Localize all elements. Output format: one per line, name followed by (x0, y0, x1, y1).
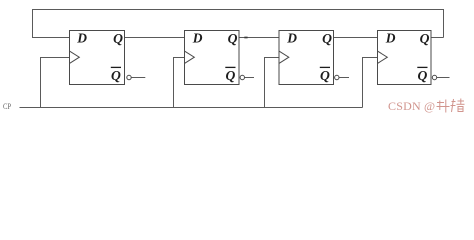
wire: clock riser FF1 (41, 58, 70, 108)
wire: Q-bar stub FF3 (339, 77, 349, 79)
inverter bubble on Q-bar FF1 (127, 75, 131, 79)
clock chevron FF4 (378, 51, 388, 63)
overbar of Q-bar FF3 (320, 66, 330, 68)
svg-text:CSDN @: CSDN @ (388, 99, 435, 113)
svg-text:D: D (286, 31, 297, 46)
overbar of Q-bar FF1 (111, 66, 121, 68)
flip-flop FF1 body (70, 31, 125, 85)
svg-text:Q: Q (320, 68, 330, 83)
svg-text:Q: Q (420, 31, 430, 46)
wire: clock riser FF2 (174, 58, 185, 108)
wire: Q-bar stub FF1 (131, 77, 145, 79)
wire: D input of FF1 (32, 37, 70, 39)
inverter bubble on Q-bar FF4 (432, 75, 436, 79)
wire: Q3 to D4 (334, 37, 378, 39)
watermark CSDN (388, 99, 465, 114)
wire: Q-bar stub FF2 (245, 77, 254, 79)
svg-text:Q: Q (228, 31, 238, 46)
svg-text:D: D (192, 31, 203, 46)
clock chevron FF3 (279, 51, 289, 63)
svg-text:Q: Q (113, 31, 123, 46)
hanzi 2 strokes (452, 101, 456, 103)
svg-text:CP: CP (3, 101, 11, 111)
svg-text:Q: Q (225, 68, 235, 83)
wire: Q-bar stub FF4 (437, 77, 450, 79)
svg-text:Q: Q (111, 68, 121, 83)
hanzi 1 strokes (437, 102, 444, 104)
flip-flop FF3 body (279, 31, 334, 85)
clock chevron FF1 (70, 51, 80, 63)
wire: CP bus (20, 107, 363, 109)
overbar of Q-bar FF2 (225, 66, 235, 68)
svg-text:D: D (76, 31, 87, 46)
wire: Q1 to D2 (125, 37, 185, 39)
junction artifact on Q2 wire (244, 37, 247, 39)
flip-flop FF4 body (378, 31, 432, 85)
svg-text:D: D (385, 31, 396, 46)
flip-flop FF2 body (185, 31, 240, 85)
wire: clock riser FF3 (265, 58, 280, 108)
wire: clock riser FF4 (363, 58, 378, 108)
clock chevron FF2 (185, 51, 195, 63)
wire: Q2 to D3 (239, 37, 279, 39)
wire: feedback top bus from Q4 to D1 (33, 10, 444, 38)
overbar of Q-bar FF4 (417, 66, 427, 68)
wire: Q4 output to feedback riser (431, 37, 444, 39)
inverter bubble on Q-bar FF2 (240, 75, 244, 79)
inverter bubble on Q-bar FF3 (335, 75, 339, 79)
svg-text:Q: Q (322, 31, 332, 46)
svg-text:Q: Q (417, 68, 427, 83)
